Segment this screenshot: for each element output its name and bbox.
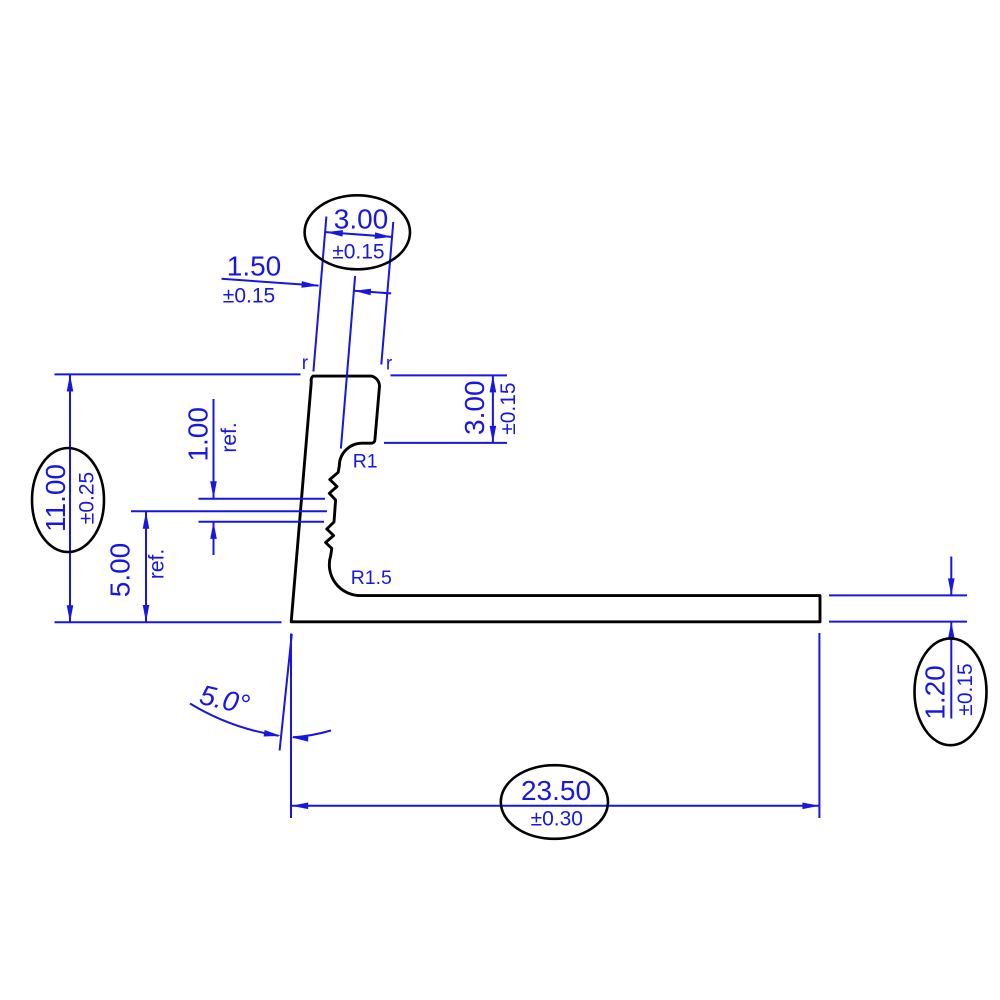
extension line left (left face of upper leg) (313, 217, 326, 372)
extension line right end vertical (818, 633, 820, 818)
svg-text:3.00: 3.00 (459, 380, 490, 435)
svg-text:3.00: 3.00 (334, 203, 389, 234)
balloon ellipse around 23.50 (501, 765, 608, 839)
dimension 3.00 +/-0.15 right side vertical (490, 375, 497, 443)
extension line right (outer face of 3.0 top wall) (381, 222, 393, 365)
extension line vertical reference below corner (290, 634, 292, 819)
svg-text:5.00: 5.00 (105, 543, 136, 598)
extension line bottom left (profile bottom level) (55, 621, 282, 623)
svg-text:r: r (302, 353, 309, 374)
extension line, serration middle (5.00 ref) (131, 510, 327, 512)
extension line, serration top (199, 498, 326, 500)
balloon ellipse around 11.00 (32, 448, 104, 552)
extension line leg top face (829, 594, 967, 596)
dimension 23.50 +/-0.30 horizontal (291, 803, 819, 810)
extension line slanted (left face extended) (280, 634, 292, 751)
profile outline of L-shaped extrusion (291, 376, 820, 622)
svg-text:±0.25: ±0.25 (76, 472, 99, 524)
svg-text:11.00: 11.00 (40, 464, 71, 532)
dimension 1.50 +/-0.15, outside arrows (222, 279, 392, 296)
extension line top left (profile top level) (55, 373, 301, 375)
svg-text:R1.5: R1.5 (351, 567, 392, 589)
dimension 5.00 ref vertical (143, 512, 150, 622)
svg-text:±0.15: ±0.15 (332, 241, 384, 264)
dimension 3.00 +/-0.15 top, dimension line and arrows (326, 230, 392, 239)
svg-text:R1: R1 (353, 450, 378, 472)
svg-text:ref.: ref. (218, 422, 241, 452)
extension line, top face level (391, 374, 508, 376)
extension line middle (inner face, 1.5 wall) (341, 276, 355, 449)
svg-text:±0.30: ±0.30 (531, 807, 583, 830)
dimension 1.00 ref, outside arrows (210, 399, 217, 555)
svg-text:r: r (386, 354, 393, 375)
angle dimension 5.0 deg leader and arrows (190, 704, 331, 742)
dimension 11.00 +/-0.25 vertical (67, 375, 74, 623)
balloon ellipse around 1.20 (915, 638, 987, 745)
svg-text:1.50: 1.50 (227, 251, 282, 282)
svg-text:±0.15: ±0.15 (954, 663, 977, 715)
balloon ellipse around 3.00 dimension (305, 195, 410, 269)
svg-text:±0.15: ±0.15 (497, 382, 520, 434)
extension line, serration bottom (199, 521, 325, 523)
svg-text:1.00: 1.00 (183, 407, 214, 462)
dimension 1.20 +/-0.15, outside arrows (948, 557, 955, 719)
svg-text:ref.: ref. (146, 549, 169, 579)
svg-text:23.50: 23.50 (521, 775, 591, 806)
svg-text:1.20: 1.20 (920, 665, 951, 720)
extension line leg bottom face (829, 621, 967, 623)
extension line, ledge level (384, 442, 507, 444)
svg-text:±0.15: ±0.15 (223, 285, 275, 308)
